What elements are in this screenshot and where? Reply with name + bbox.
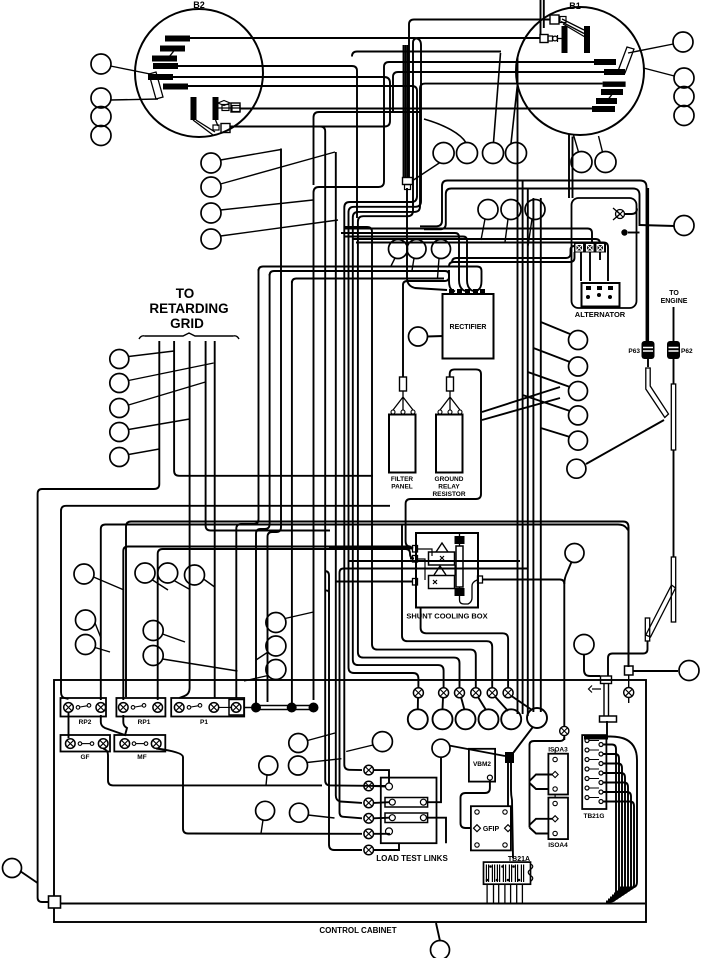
B1 vertical bar B [584, 26, 590, 53]
P62 line top [673, 307, 675, 342]
load test left column circled-x x6 [364, 765, 374, 855]
leader Rc circle [640, 225, 675, 226]
B2 switch slash [169, 47, 177, 57]
svg-text:P1: P1 [200, 719, 208, 726]
diagonal sleeve lower [646, 585, 676, 637]
B2 terminal bar 4 [153, 63, 178, 69]
svg-text:RECTIFIER: RECTIFIER [450, 324, 487, 331]
wire B2 bar6 right [188, 86, 417, 197]
rectifier circles [389, 240, 408, 259]
black square connector [505, 752, 514, 763]
alternator container [572, 198, 637, 308]
retarding grid verticals [38, 341, 160, 878]
diagonal up right from square [514, 728, 533, 753]
shunt right wire to circle corner and down [482, 580, 564, 727]
bundle F verticals from bus area down [517, 243, 519, 714]
load test pins [386, 783, 393, 790]
vertical sleeve lower [645, 618, 649, 641]
big circle B1 [516, 7, 644, 135]
GRR fan [440, 391, 460, 410]
B1 bar6 [592, 106, 615, 112]
svg-text:ALTERNATOR: ALTERNATOR [575, 310, 626, 319]
wire long B2 plug to B1 bar6 [240, 108, 592, 110]
RP2 strip [61, 698, 107, 717]
big circle B2 [135, 9, 263, 137]
under B1 two [571, 152, 592, 173]
ISOA3 bracket [530, 775, 553, 790]
svg-text:P63: P63 [628, 348, 640, 355]
B2 terminal bar 3 [152, 56, 177, 62]
wire B1 bar3 left [420, 84, 603, 130]
circled x with arrow [616, 210, 625, 219]
wires below GF MF down [103, 749, 322, 786]
wire shunt T3 left down to load test bundle [336, 152, 362, 803]
plug box right bottom [625, 666, 634, 675]
wire B2 bar1 to middle bundle [189, 38, 421, 180]
svg-text:TO: TO [669, 290, 679, 297]
svg-text:GF: GF [80, 754, 89, 761]
B2 vertical bar 8 [213, 97, 219, 120]
svg-text:CONTROL CABINET: CONTROL CABINET [319, 926, 396, 935]
load test inner link 1 [385, 798, 428, 808]
vertical x517 from B1 edge [517, 57, 519, 243]
bottom left circle leader [20, 871, 38, 883]
B1 fan diagonals [562, 19, 584, 30]
wire RP1R up across to shunt T2 [158, 549, 414, 700]
shunt right terminal [478, 576, 483, 583]
wire B1 bar1 left down x384 to y187 to x313 down to bus bar [314, 62, 595, 700]
GF MF feed wires [68, 713, 70, 739]
B2 terminal bar 1 [165, 36, 190, 42]
shunt relay 1 [429, 552, 455, 565]
P62 sleeve 2 [671, 557, 675, 622]
retarding grid circles [110, 350, 129, 369]
diagonal from GRR area to right [482, 387, 560, 412]
x329 line from H571 [325, 571, 363, 850]
P62 below sleeves [673, 450, 675, 557]
ISOA4 box [548, 798, 568, 840]
GF strip [61, 735, 111, 752]
S-bend wires from top bundle down-left then down (bundle B verticals) [344, 196, 417, 770]
svg-text:FILTER: FILTER [391, 476, 414, 483]
mid four row [74, 564, 94, 584]
wire GRR loop [406, 369, 481, 548]
mid-left column [201, 153, 221, 173]
svg-text:SHUNT COOLING BOX: SHUNT COOLING BOX [406, 612, 487, 621]
svg-text:LOAD TEST LINKS: LOAD TEST LINKS [376, 854, 448, 863]
alternator strip [574, 243, 606, 253]
circled x above isoa [560, 726, 569, 735]
elbow wire to terminal row x508 [421, 608, 509, 689]
load test bundle lines from right horizontals [349, 560, 521, 562]
leader from circle to black square [449, 746, 505, 757]
ISOA3 box [548, 754, 568, 795]
container top edge pair second [126, 522, 629, 698]
svg-text:P62: P62 [681, 348, 693, 355]
long horizontal 505 to RP2-L [61, 506, 390, 699]
P62 fuse [667, 341, 680, 359]
col circle leaders to bundle F [541, 322, 570, 334]
wire circled dot right arrow to corner [625, 209, 637, 215]
alternator container outer corners [420, 181, 647, 342]
filter panel box [389, 415, 416, 473]
B2 slanted blade [149, 72, 163, 99]
bottom center circle [431, 941, 450, 958]
wire B1 plug1 to bundle [409, 20, 550, 179]
TB21G wire bundle right [584, 737, 611, 739]
B1 plug2 [540, 35, 548, 43]
top middle four [433, 143, 454, 164]
shunt relay 2 [429, 576, 455, 589]
wire B2 bar4 right, down x281 [178, 66, 357, 218]
RP1 strip [116, 698, 165, 717]
B2 terminal bar 6 [163, 84, 188, 90]
P1 strip [171, 698, 244, 717]
wire y51 [352, 52, 501, 57]
svg-text:GFIP: GFIP [483, 826, 500, 833]
B1 bar5 [596, 98, 617, 104]
verticals above B1 plugs [540, 0, 542, 35]
P63 line [647, 188, 649, 341]
wire x564 from shunt corner down to isoa [563, 736, 565, 741]
svg-text:ENGINE: ENGINE [661, 298, 688, 305]
retarding brace [139, 333, 239, 339]
B1 switch slash [607, 93, 613, 101]
bundle B extra verticals to elbows [345, 227, 476, 688]
load test inner link 2 [385, 813, 428, 823]
TB21G box [582, 735, 606, 809]
filter panel fan [393, 391, 413, 410]
S2 circle leader down to plug [584, 654, 600, 676]
bundle F sources at B1 edge [568, 135, 570, 199]
bottom balloon leader [436, 923, 440, 941]
svg-text:ISOA3: ISOA3 [548, 747, 568, 754]
left of B2 [91, 54, 111, 74]
svg-text:TO: TO [176, 286, 195, 301]
shunt vertical bar [456, 546, 463, 587]
wire y112 from bundle left corner down x313 [314, 112, 421, 185]
wires from black square [507, 763, 509, 806]
wire filter loop [403, 270, 449, 377]
rectifier pins [449, 289, 485, 295]
B2 vertical bar 7 [191, 97, 197, 120]
shunt left terminals [413, 546, 418, 553]
alternator box [582, 283, 620, 307]
T-plug down wire [606, 721, 608, 736]
svg-text:TB21A: TB21A [508, 856, 530, 863]
wire B1 plug2 to bundle [413, 38, 540, 172]
B1 slanted blade [618, 47, 634, 73]
B2 plug1 diamond and barrel [218, 101, 230, 106]
above alternator three [478, 200, 498, 220]
bus y278 wire right [292, 279, 444, 284]
svg-text:ISOA4: ISOA4 [548, 842, 568, 849]
short feeds under circles to strip [452, 246, 575, 263]
GRR box [436, 415, 463, 473]
terminal row circled-x x6 [413, 688, 513, 698]
wires to alternator strip band y229-242 [345, 229, 592, 243]
load test links outer box [381, 778, 437, 844]
svg-text:RP2: RP2 [79, 719, 92, 726]
ISOA4 bracket [530, 819, 553, 834]
svg-text:TB21G: TB21G [584, 813, 605, 820]
shunt cooling left wires [329, 548, 413, 550]
shunt cooling box [416, 533, 478, 608]
VBM2 box [469, 749, 495, 782]
circled x in box left of bus bar [229, 700, 244, 716]
lower left pairs [76, 610, 96, 630]
MF strip [114, 735, 165, 752]
P63 sleeve [646, 368, 669, 418]
B1 vertical bar A [562, 26, 568, 53]
svg-text:VBM2: VBM2 [473, 761, 491, 768]
svg-text:B2: B2 [193, 0, 205, 10]
B1 plug1 [550, 15, 559, 24]
wire connector to rectifier pin1 [407, 188, 447, 290]
circled x below plug box [624, 688, 634, 698]
GFIP box [471, 806, 511, 850]
bundle A verticals going down to bus bar [236, 269, 258, 698]
left far vertical into square node [38, 878, 49, 902]
wire C4 circle leader [427, 335, 443, 338]
VBM2 wire to GFIP [461, 780, 490, 828]
B2 terminal bar 5 [148, 74, 173, 80]
svg-text:GROUND: GROUND [435, 476, 464, 483]
right bottom circle [679, 661, 699, 681]
B1 bar2 [604, 69, 625, 75]
svg-text:RETARDING: RETARDING [149, 301, 228, 316]
leaders terminal row to big circles [417, 698, 419, 709]
wire dot to vertical [628, 232, 640, 234]
alternator box pins [586, 286, 613, 299]
wire B1 bar2 left [393, 72, 605, 112]
right circle near alternator [674, 216, 694, 236]
load test wires [374, 770, 400, 850]
GRR fuse [447, 377, 454, 391]
svg-text:B1: B1 [569, 1, 581, 11]
alternator pins down from strip [580, 252, 582, 281]
svg-text:GRID: GRID [170, 316, 204, 331]
bottom long wire y903 [55, 903, 645, 905]
bus bar link [245, 706, 314, 710]
bus y266 [259, 267, 482, 292]
svg-text:RP1: RP1 [138, 719, 151, 726]
TB21A wires below [487, 884, 522, 902]
svg-text:PANEL: PANEL [391, 484, 413, 491]
wire plug box right to circle [633, 670, 679, 672]
B2 plug fan diagonals [193, 120, 213, 135]
wire RP1L up across to shunt T1 [123, 547, 413, 701]
B2 plug2 [221, 124, 230, 133]
P62 sleeve 1 [671, 384, 675, 450]
svg-text:RESISTOR: RESISTOR [432, 491, 465, 498]
B1 bar3 [603, 82, 626, 87]
wire RP2R up and across to right plug [101, 525, 628, 701]
T plug assembly [601, 676, 612, 684]
connector block middle [403, 178, 413, 185]
right of B1 four [673, 32, 693, 52]
long diagonal from col circle 6 to fuse Y [586, 420, 664, 464]
svg-text:MF: MF [137, 754, 146, 761]
B1 bar1 [594, 59, 616, 65]
svg-text:RELAY: RELAY [438, 484, 460, 491]
filter panel fuse [400, 377, 407, 391]
B1 bar4 [601, 89, 623, 95]
wire B2 bar5 right [172, 77, 390, 127]
v column three [266, 613, 286, 633]
rectifier box [443, 294, 494, 359]
filled dot terminal [621, 229, 627, 235]
P63 fuse [642, 341, 655, 359]
wire B2 plug2 right [230, 127, 386, 787]
bottom-left circle [3, 859, 22, 878]
right column six [569, 331, 588, 350]
wire x628 to plug box [628, 527, 630, 667]
square node bottom left [49, 896, 61, 908]
B2 terminal bar 2 [160, 46, 185, 52]
TB21A box [484, 862, 531, 884]
big circle row [408, 709, 428, 729]
B2 left connector stub [232, 106, 240, 112]
bus y271 [270, 271, 455, 292]
horizontals to rectifier pins [341, 233, 465, 291]
bracket vertical wire [530, 737, 565, 828]
bundle C five tight verticals into connector [403, 45, 405, 178]
control cabinet box [54, 680, 646, 922]
bottom mid circles [289, 734, 308, 753]
S1 S2 [565, 544, 584, 563]
